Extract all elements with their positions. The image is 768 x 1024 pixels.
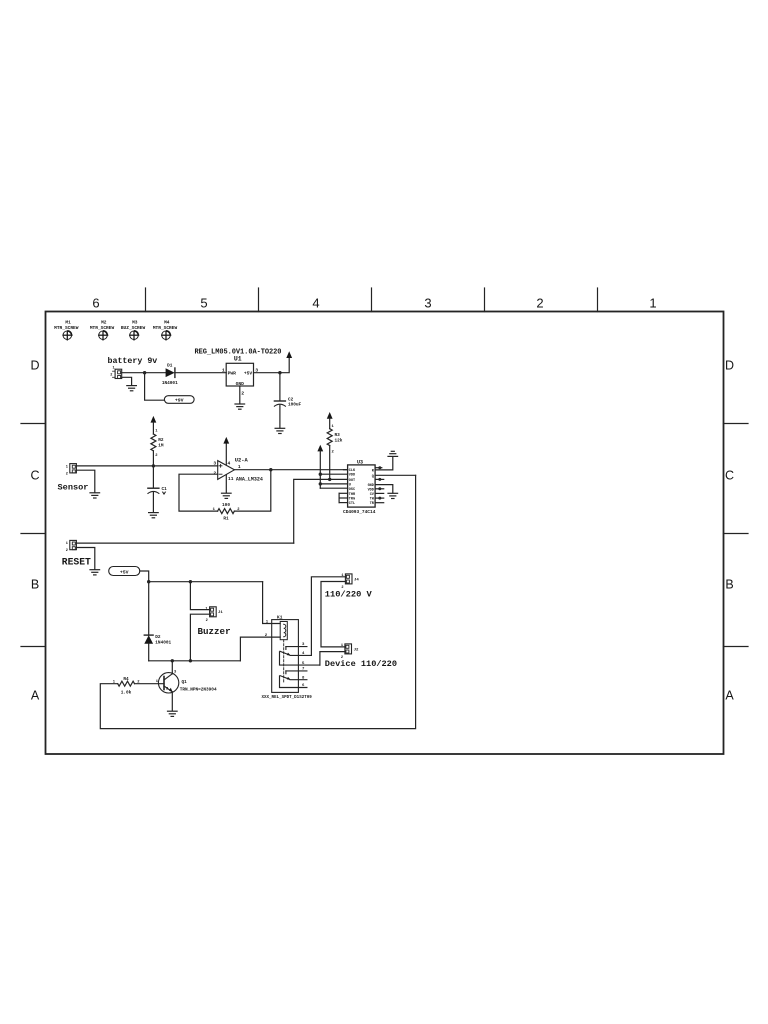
svg-text:VDD: VDD <box>349 474 355 478</box>
wire U1 output to node <box>254 372 280 374</box>
resistor R4 <box>113 677 141 696</box>
wire buzzer pin1 branch <box>190 582 209 610</box>
wire node to D1 anode <box>145 372 166 374</box>
node +5V rail left junction <box>147 580 150 583</box>
wire RESET riser to U3 row3 <box>294 479 348 543</box>
top tick 4/3 <box>371 288 373 312</box>
wire J2 pin2 to relay common pin5 <box>320 652 345 666</box>
svg-text:BUZ_SCREW: BUZ_SCREW <box>121 325 146 331</box>
relay contact2 arm pin8 <box>280 676 307 681</box>
node sensor/R2/C1 junction <box>152 464 155 467</box>
svg-text:TRG: TRG <box>349 498 355 502</box>
svg-text:1: 1 <box>205 607 207 611</box>
svg-text:1N4001: 1N4001 <box>162 381 178 386</box>
svg-text:U1: U1 <box>234 356 242 363</box>
relay contact2 common pin6 <box>280 676 307 688</box>
svg-text:TH: TH <box>370 498 374 502</box>
svg-text:CV: CV <box>370 493 375 497</box>
left tick C/B <box>21 533 46 535</box>
ground Q1 <box>168 711 178 716</box>
node Q1 collector junction <box>171 659 174 662</box>
svg-text:THR: THR <box>349 493 356 497</box>
svg-text:6: 6 <box>92 296 99 311</box>
transistor Q1 <box>156 671 217 693</box>
wire +5V to U3 row5 <box>320 487 347 489</box>
relay K1 body <box>272 620 299 693</box>
wire +9V branch <box>145 373 165 401</box>
resistor R2 <box>151 434 164 458</box>
svg-text:OSC: OSC <box>349 488 355 492</box>
svg-text:1: 1 <box>155 430 158 434</box>
op-amp U2-A <box>213 458 262 483</box>
wire rail down to relay coil pin1 <box>263 582 281 624</box>
wire battery pin1 to node <box>122 372 145 374</box>
svg-text:TR: TR <box>370 502 375 506</box>
svg-text:2: 2 <box>536 296 543 311</box>
svg-text:B: B <box>725 578 733 592</box>
left tick B/A <box>21 646 46 648</box>
svg-text:2: 2 <box>110 373 112 377</box>
wire feedback down to R1 <box>234 470 270 511</box>
svg-text:1: 1 <box>113 367 115 371</box>
power arrow +5V at U1 <box>286 351 292 358</box>
svg-text:U: U <box>349 483 351 487</box>
svg-text:C: C <box>725 469 734 483</box>
svg-text:4: 4 <box>228 460 231 466</box>
svg-text:1: 1 <box>222 368 225 374</box>
wire bottom rail <box>149 660 241 662</box>
wire J4 pin2 to J2 pin1 <box>321 582 345 647</box>
ground C2 <box>275 428 285 433</box>
svg-text:B: B <box>31 578 39 592</box>
border frame <box>46 312 724 755</box>
wire +5V rail <box>149 581 263 583</box>
power label +5V <box>109 567 140 576</box>
svg-text:J1: J1 <box>218 611 223 615</box>
svg-text:D: D <box>725 359 734 373</box>
left tick D/C <box>21 423 46 425</box>
wire +5V to U3 row4 <box>320 483 347 485</box>
svg-text:1: 1 <box>341 574 343 578</box>
wire U3 row to loop output <box>375 474 416 476</box>
resistor R1 <box>213 503 241 521</box>
wire op-amp output <box>234 469 270 471</box>
right tick B/A <box>724 646 749 648</box>
svg-text:C: C <box>30 469 39 483</box>
regulator U1 <box>222 363 258 396</box>
wire D1 to U1 pin1 <box>175 372 226 374</box>
svg-text:R1: R1 <box>223 517 229 522</box>
ground right of U3 <box>388 493 398 498</box>
ground C1 <box>149 513 159 518</box>
capacitor C1 <box>148 466 167 512</box>
svg-text:Q: Q <box>372 475 374 479</box>
svg-text:M2: M2 <box>101 320 107 326</box>
svg-text:MTR_SCREW: MTR_SCREW <box>54 325 79 331</box>
svg-text:1N4001: 1N4001 <box>155 640 171 645</box>
mounting screw M2 <box>90 320 115 341</box>
op-amp power arrow <box>223 437 229 465</box>
connector Sensor <box>66 464 77 477</box>
mounting screw M3 <box>121 320 146 341</box>
svg-text:2: 2 <box>241 391 244 397</box>
connector J4 <box>341 574 359 590</box>
svg-text:A: A <box>725 689 734 703</box>
svg-text:M4: M4 <box>164 320 170 326</box>
wire +5V label to rail <box>140 571 149 582</box>
svg-text:+9V: +9V <box>175 398 184 404</box>
U1 GND pin wire <box>239 386 241 404</box>
svg-text:D: D <box>30 359 39 373</box>
wire Q1 collector up <box>171 661 173 674</box>
svg-text:2: 2 <box>206 619 208 623</box>
right tick D/C <box>724 423 749 425</box>
svg-text:D1: D1 <box>167 364 173 369</box>
wire D2 to bottom rail <box>148 644 150 661</box>
node buzzer pin2 junction <box>189 659 192 662</box>
svg-text:MTR_SCREW: MTR_SCREW <box>90 325 115 331</box>
svg-text:11: 11 <box>228 476 234 482</box>
ground U1 <box>235 404 245 409</box>
node +5V row4 junction <box>319 482 322 485</box>
relay coil <box>280 622 287 640</box>
node R3/RESET junction <box>328 478 331 481</box>
svg-text:1M: 1M <box>158 443 164 448</box>
capacitor C2 <box>274 373 301 428</box>
svg-text:OUT: OUT <box>349 479 355 483</box>
ground above U3 (inverted) <box>388 451 398 456</box>
svg-text:100: 100 <box>222 503 230 508</box>
svg-text:battery 9v: battery 9v <box>108 356 158 366</box>
svg-text:PWR: PWR <box>228 371 237 377</box>
relay contact1 common pin5 <box>280 652 320 666</box>
svg-text:110/220 V: 110/220 V <box>325 589 373 599</box>
mounting screw M1 <box>54 320 79 341</box>
ground sensor <box>90 493 100 498</box>
power arrow above R3 <box>327 412 333 419</box>
svg-text:R2: R2 <box>158 438 164 443</box>
svg-text:M1: M1 <box>65 320 71 326</box>
wire R4 to Q1 base <box>135 683 165 685</box>
svg-text:3: 3 <box>424 296 431 311</box>
svg-text:CD4093_74C14: CD4093_74C14 <box>343 509 376 515</box>
relay contact1 fixed stub pin3 <box>286 643 307 649</box>
wire bottom rail to relay coil pin2 <box>240 637 280 661</box>
svg-text:CTL: CTL <box>349 502 355 506</box>
svg-text:100uF: 100uF <box>288 403 302 408</box>
node buzzer branch junction <box>189 580 192 583</box>
svg-text:5: 5 <box>200 296 207 311</box>
svg-text:3: 3 <box>213 461 216 467</box>
node +5V row2 junction <box>319 473 322 476</box>
wire output to U3 pin row1 <box>271 469 348 471</box>
svg-text:MTR_SCREW: MTR_SCREW <box>153 325 178 331</box>
wire RESET pin1 to riser <box>76 542 293 544</box>
wire D2 branch top <box>148 582 150 635</box>
svg-text:A: A <box>31 689 40 703</box>
svg-text:R4: R4 <box>123 677 129 682</box>
wire U3 to upper ground <box>375 457 393 470</box>
resistor R3 <box>327 429 343 455</box>
svg-text:R: R <box>372 469 375 473</box>
wire R1 to minus input <box>179 474 218 511</box>
svg-text:Buzzer: Buzzer <box>198 626 231 637</box>
svg-text:VDD: VDD <box>368 488 374 492</box>
svg-text:J4: J4 <box>354 578 359 582</box>
wire R2 to node <box>152 451 154 466</box>
wire sensor pin1 to op-amp plus input <box>76 465 217 467</box>
right tick C/B <box>724 533 749 535</box>
power arrow +5V to U3 <box>317 445 323 489</box>
wire sensor pin2 to ground <box>76 470 94 492</box>
svg-text:2: 2 <box>155 454 158 458</box>
svg-text:Sensor: Sensor <box>58 482 89 492</box>
svg-text:CLK: CLK <box>349 469 356 473</box>
svg-text:U2-A: U2-A <box>235 458 249 464</box>
svg-text:12k: 12k <box>335 438 343 443</box>
svg-text:Device 110/220: Device 110/220 <box>325 659 397 669</box>
svg-text:RESET: RESET <box>62 557 91 568</box>
diode D1 <box>162 364 178 386</box>
svg-text:4: 4 <box>312 296 319 311</box>
connector J2 <box>341 644 359 660</box>
svg-text:2: 2 <box>66 549 68 553</box>
U3 left pin stubs <box>339 470 348 503</box>
op-amp ground <box>222 475 232 498</box>
node U1 out / C2 junction <box>278 371 281 374</box>
IC U3 <box>348 465 376 507</box>
svg-text:1: 1 <box>66 542 68 546</box>
relay actuator dashed line <box>283 640 285 683</box>
svg-text:+5V: +5V <box>120 570 129 576</box>
node op-amp output junction <box>269 468 272 471</box>
wire R3 to U3 row3 <box>329 446 331 480</box>
relay contact2 fixed stub pin7 <box>286 668 307 674</box>
relay contact1 arm pin4 <box>280 651 311 656</box>
top tick 2/1 <box>597 288 599 312</box>
svg-text:R3: R3 <box>335 433 341 438</box>
svg-text:M3: M3 <box>132 320 138 326</box>
wire Q1 emitter down <box>171 692 173 711</box>
wire relay arm pin4 to J4 pin1 <box>311 577 345 656</box>
svg-text:+5V: +5V <box>244 371 253 377</box>
wire buzzer pin2 branch <box>190 614 209 661</box>
node battery/D1/+9V junction <box>143 371 146 374</box>
svg-text:ANA_LM324: ANA_LM324 <box>236 476 263 482</box>
U3 right pin stubs <box>375 466 384 503</box>
svg-text:1: 1 <box>66 465 68 469</box>
svg-text:1: 1 <box>341 644 343 648</box>
power arrow above R2 <box>151 416 157 423</box>
ground battery <box>127 386 137 391</box>
svg-text:Q1: Q1 <box>182 680 188 685</box>
diode D2 <box>144 635 171 645</box>
svg-text:1.0k: 1.0k <box>121 690 132 695</box>
ground RESET <box>90 570 100 575</box>
svg-text:2: 2 <box>332 451 335 455</box>
wire node to +5V arrow <box>280 358 289 373</box>
svg-text:1: 1 <box>649 296 656 311</box>
wire U3 to lower ground <box>375 485 393 493</box>
svg-text:C1: C1 <box>162 487 168 492</box>
top tick 5/4 <box>258 288 260 312</box>
svg-text:J2: J2 <box>354 649 359 653</box>
connector RESET <box>66 540 77 553</box>
mounting screw M4 <box>153 320 178 341</box>
wire +5V to U3 row2 <box>320 473 347 475</box>
top tick 6/5 <box>145 288 147 312</box>
svg-text:XXX_REL_SPDT_D1S2T09: XXX_REL_SPDT_D1S2T09 <box>262 696 313 700</box>
svg-text:3: 3 <box>174 671 177 675</box>
svg-text:2: 2 <box>66 472 68 476</box>
battery connector BT1 <box>110 367 121 379</box>
wire battery pin2 down <box>122 377 132 385</box>
wire RESET pin2 to ground <box>76 548 94 570</box>
wire long loop right side down and across bottom <box>100 475 415 728</box>
power label +9V <box>164 396 194 404</box>
connector J1 buzzer <box>205 607 223 623</box>
svg-text:1: 1 <box>332 425 335 429</box>
svg-text:TRN_NPN=2N3904: TRN_NPN=2N3904 <box>180 688 217 693</box>
top tick 3/2 <box>484 288 486 312</box>
